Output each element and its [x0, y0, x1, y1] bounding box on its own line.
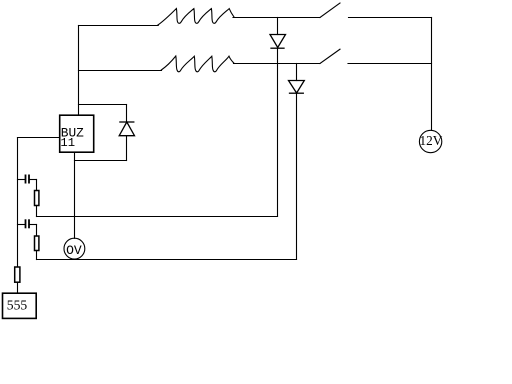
wire left bus vertical: [17, 138, 19, 268]
wire R2 to 0V rail: [36, 251, 38, 260]
wire D1 cathode down: [277, 48, 279, 216]
wire flyback branch top: [79, 104, 127, 106]
switch S2 blade: [320, 49, 340, 63]
wire node A horizontal: [37, 216, 278, 218]
capacitor C2: [18, 220, 37, 227]
wire flyback anode down: [126, 136, 128, 161]
label BUZ 11: [60, 125, 84, 150]
wire 12V rail vertical: [431, 18, 433, 131]
wire D2 anode riser: [296, 64, 298, 81]
capacitor C1: [18, 175, 37, 182]
MOSFET U1 BUZ11: [60, 115, 94, 152]
wire S1 to 12V rail: [349, 17, 432, 19]
wire C1 to R1: [36, 180, 38, 191]
wire R3 to 555: [17, 282, 19, 293]
wire L2 to switch S2: [234, 63, 321, 65]
terminal 0V: [64, 238, 85, 259]
resistor R2: [35, 236, 39, 251]
wire C2 to R2: [36, 225, 38, 237]
svg-text:555: 555: [7, 297, 28, 312]
wire source down to 0V terminal: [74, 152, 76, 238]
svg-text:OV: OV: [66, 243, 82, 258]
wire D1 anode riser: [277, 18, 279, 35]
wire R1 to node A: [36, 206, 38, 217]
switch S1 blade: [320, 3, 340, 18]
wire second rail left segment: [79, 70, 162, 72]
inductor L2: [161, 56, 234, 72]
diode D3 flyback: [119, 122, 134, 136]
wire L1 to switch S1: [233, 17, 320, 19]
wire gate: [18, 137, 60, 139]
resistor R3: [15, 267, 20, 282]
wire flyback cathode riser: [126, 105, 128, 123]
wire 0V rail horizontal: [37, 259, 297, 261]
diode D1: [270, 35, 286, 49]
svg-text:12V: 12V: [420, 133, 443, 148]
supply terminal 12V: [419, 130, 442, 152]
inductor L1: [158, 9, 234, 26]
wire drain riser (top-left vertical): [78, 26, 80, 116]
wire D2 cathode down: [296, 93, 298, 259]
timer U2 555 box: [3, 293, 37, 318]
wire S2 to 12V rail: [348, 63, 432, 65]
wire top rail left segment: [79, 25, 159, 27]
wire flyback bottom: [75, 160, 127, 162]
svg-text:11: 11: [60, 136, 75, 150]
resistor R1: [35, 191, 39, 206]
diode D2: [289, 81, 305, 94]
